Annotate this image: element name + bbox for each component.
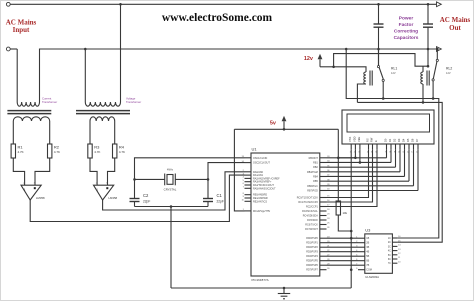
- wire R4 to opamp2 in+: [108, 158, 115, 185]
- svg-text:www.electroSome.com: www.electroSome.com: [162, 12, 273, 24]
- resistor R1 4.7K: [11, 144, 15, 158]
- node crystal gnd tap: [170, 205, 173, 208]
- wire R3 to opamp2 in-: [90, 158, 97, 185]
- node RL2 pivot tap: [436, 48, 439, 51]
- svg-text:LM358: LM358: [36, 196, 45, 200]
- resistor R2 4.7K: [48, 144, 52, 158]
- svg-text:U3: U3: [365, 227, 371, 232]
- node cap C4 bottom / RL1 pivot: [377, 48, 380, 51]
- svg-text:VEE: VEE: [357, 137, 361, 142]
- wire R2 to opamp1 in+: [35, 158, 50, 185]
- wire TR2 sec right lead: [114, 121, 116, 144]
- svg-text:RD7/PSP7: RD7/PSP7: [306, 269, 318, 272]
- LCD1 body: [342, 110, 434, 144]
- resistor R4 4.7K: [113, 144, 117, 158]
- node cap C5 to coil rail: [427, 65, 430, 68]
- svg-text:RD6/PSP6: RD6/PSP6: [306, 264, 318, 267]
- wire VEE jog: [359, 150, 361, 163]
- resistor R3 4.7K: [88, 144, 92, 158]
- node 12v corner: [332, 66, 335, 69]
- svg-text:4MHz: 4MHz: [167, 169, 174, 172]
- svg-text:ULN2003A: ULN2003A: [365, 275, 379, 279]
- svg-text:RC7/RX/DT: RC7/RX/DT: [305, 228, 318, 231]
- svg-text:RC0/T1OSO/T1CKI: RC0/T1OSO/T1CKI: [297, 197, 318, 200]
- wire TR1 sec left lead: [12, 121, 14, 144]
- svg-text:Transformer: Transformer: [126, 100, 141, 104]
- node VDD: [354, 157, 357, 160]
- wire 5v drop to RB0/10k: [337, 129, 339, 201]
- wire crystal left lead: [135, 178, 165, 180]
- node RL2 coil drive: [422, 101, 425, 104]
- svg-text:4B: 4B: [366, 251, 369, 254]
- svg-text:1C: 1C: [388, 237, 391, 240]
- svg-text:RD2/PSP2: RD2/PSP2: [306, 246, 318, 249]
- svg-text:RD4/PSP4: RD4/PSP4: [306, 255, 318, 258]
- wire E to RC2: [327, 150, 378, 207]
- svg-text:Factor: Factor: [399, 22, 414, 28]
- op-amp U2 LM358 (1): [21, 185, 41, 200]
- svg-text:Transformer: Transformer: [42, 100, 57, 104]
- svg-text:OSC2/CLKOUT: OSC2/CLKOUT: [253, 162, 270, 165]
- svg-text:R2: R2: [54, 144, 60, 149]
- svg-text:3B: 3B: [366, 246, 369, 249]
- svg-text:RL1: RL1: [391, 67, 397, 71]
- svg-text:C1: C1: [217, 193, 223, 198]
- relay RL2 switch: [436, 49, 438, 59]
- svg-text:12V: 12V: [391, 71, 396, 75]
- transformer TR1 core: [7, 110, 51, 112]
- node ground junction: [283, 287, 286, 290]
- svg-text:COM: COM: [366, 269, 372, 272]
- svg-text:RD5/PSP5: RD5/PSP5: [306, 260, 318, 263]
- svg-text:Correcting: Correcting: [394, 29, 418, 35]
- wire VDD jog: [338, 157, 355, 159]
- svg-text:R4: R4: [119, 144, 125, 149]
- relay RL1 switch: [378, 49, 380, 65]
- wire TR2 sec left lead: [89, 121, 91, 144]
- transformer TR2 secondary: [90, 117, 115, 121]
- svg-text:VDD: VDD: [352, 136, 356, 142]
- U3 body: [365, 234, 393, 273]
- capacitor C1 22pF: [203, 198, 213, 200]
- wire RL2 coil to driver: [422, 84, 424, 102]
- svg-text:D1: D1: [388, 138, 392, 142]
- svg-text:C2: C2: [143, 193, 149, 198]
- svg-text:MCLR/Vpp/THV: MCLR/Vpp/THV: [253, 210, 271, 213]
- svg-text:RC2/CCP1: RC2/CCP1: [306, 206, 318, 209]
- svg-text:U1: U1: [252, 147, 258, 152]
- svg-text:2C: 2C: [388, 241, 391, 244]
- svg-text:D2: D2: [393, 138, 397, 142]
- svg-text:E: E: [374, 140, 378, 142]
- svg-text:RB3/PGM: RB3/PGM: [307, 171, 318, 174]
- svg-text:OSC1/CLKIN: OSC1/CLKIN: [253, 157, 267, 160]
- svg-text:5v: 5v: [270, 121, 277, 127]
- wire 5v to MCLR: [234, 129, 244, 211]
- svg-text:2B: 2B: [366, 242, 369, 245]
- capacitor C4 (power factor): [378, 4, 380, 24]
- transformer TR1 primary: [17, 102, 39, 106]
- svg-text:D6: D6: [411, 138, 415, 142]
- node VSS-gnd crossing: [350, 230, 353, 233]
- svg-text:Power: Power: [399, 16, 414, 22]
- node switch-line tap: [345, 48, 348, 51]
- svg-text:5C: 5C: [388, 254, 391, 257]
- wire switch line: [346, 49, 439, 238]
- svg-text:RC5/SDO: RC5/SDO: [307, 219, 318, 222]
- node T2 primary left: [84, 48, 87, 51]
- node RL2 contact: [432, 97, 435, 100]
- wire RL1 coil to driver: [357, 84, 366, 102]
- svg-text:RD0/PSP0: RD0/PSP0: [306, 237, 318, 240]
- svg-text:RA5/AN4/SS/C2OUT: RA5/AN4/SS/C2OUT: [253, 187, 276, 190]
- node crystal left: [133, 178, 136, 181]
- svg-text:RS: RS: [366, 138, 370, 142]
- svg-text:RB1: RB1: [313, 161, 318, 164]
- svg-text:22pF: 22pF: [217, 200, 224, 204]
- op-amp U4 LM358 (2): [94, 185, 114, 200]
- svg-text:RE2/AN7/CS: RE2/AN7/CS: [253, 200, 267, 203]
- svg-text:Input: Input: [13, 26, 30, 34]
- crystal X1: [164, 174, 166, 186]
- U3 left pins: [358, 237, 365, 239]
- node cap C5 lower: [427, 48, 430, 51]
- svg-text:4.7K: 4.7K: [54, 150, 60, 154]
- terminal AC out L: [437, 2, 442, 7]
- svg-text:D3: D3: [397, 138, 401, 142]
- node 5v rail: [283, 128, 286, 131]
- capacitor C2 22pF: [130, 198, 140, 200]
- node T2 primary right on line1: [119, 3, 122, 6]
- svg-text:RW: RW: [370, 137, 374, 142]
- svg-text:D7: D7: [415, 138, 419, 142]
- svg-text:Capacitors: Capacitors: [394, 35, 419, 41]
- svg-text:4.7K: 4.7K: [119, 150, 125, 154]
- svg-text:RD3/PSP3: RD3/PSP3: [306, 251, 318, 254]
- node COM junction: [350, 268, 353, 271]
- terminal AC out N: [437, 47, 442, 52]
- wire OSC2 net: [208, 163, 245, 199]
- transformer TR2 core: [76, 110, 130, 112]
- wire opamp1 output: [30, 175, 244, 221]
- wire crystal right lead: [175, 178, 208, 180]
- relay RL1 coil: [364, 72, 366, 84]
- node crystal right: [207, 178, 210, 181]
- svg-text:RC3/SCK/SCL: RC3/SCK/SCL: [302, 210, 318, 213]
- svg-text:RD1/PSP1: RD1/PSP1: [306, 242, 318, 245]
- svg-text:3C: 3C: [388, 245, 391, 248]
- svg-text:R1: R1: [18, 144, 24, 149]
- svg-text:Out: Out: [449, 24, 461, 32]
- svg-text:RB4: RB4: [313, 175, 318, 178]
- wire ground drop: [170, 207, 172, 289]
- svg-text:D4: D4: [402, 138, 406, 142]
- transformer TR2 primary: [85, 102, 120, 106]
- U1 left pins: [245, 157, 252, 159]
- wire OSC1 net: [135, 158, 245, 199]
- svg-text:R3: R3: [94, 144, 100, 149]
- U1 body: [251, 153, 320, 276]
- LCD1 pins: [350, 144, 352, 150]
- svg-text:7B: 7B: [366, 264, 369, 267]
- svg-text:RB0/INT: RB0/INT: [309, 157, 319, 160]
- svg-text:RL2: RL2: [446, 67, 452, 71]
- wire AC line 2: [40, 49, 437, 102]
- wire 12v rail: [320, 66, 334, 68]
- wire RL2 coil top: [422, 66, 424, 72]
- svg-text:VSS: VSS: [348, 137, 352, 142]
- svg-text:AC Mains: AC Mains: [440, 16, 471, 24]
- wire crystal ground: [135, 206, 209, 208]
- wire RW to RC1: [327, 150, 373, 202]
- U3 right pins: [392, 237, 397, 239]
- svg-text:RB6/PGC: RB6/PGC: [307, 185, 318, 188]
- transformer TR1 secondary: [13, 117, 49, 121]
- svg-text:RC4/SDI/SDA: RC4/SDI/SDA: [303, 215, 318, 218]
- svg-text:D5: D5: [406, 138, 410, 142]
- svg-text:D0: D0: [384, 138, 388, 142]
- wire RD0-RD6 to U3 inputs: [327, 237, 359, 239]
- svg-text:RB5: RB5: [313, 180, 318, 183]
- svg-text:4.7K: 4.7K: [94, 150, 100, 154]
- svg-text:RB7/PGD: RB7/PGD: [307, 189, 318, 192]
- svg-text:10k: 10k: [343, 211, 348, 215]
- node cap C5 top: [427, 3, 430, 6]
- svg-text:4.7K: 4.7K: [18, 150, 24, 154]
- node gnd col at RD0: [350, 237, 353, 240]
- terminal AC input N: [6, 47, 10, 51]
- svg-text:22pF: 22pF: [143, 200, 150, 204]
- wire 12v to RL1 coil: [334, 67, 366, 72]
- wire T1 primary left lead: [16, 49, 18, 102]
- wire R5 bottom: [338, 215, 351, 231]
- svg-text:RB2: RB2: [313, 166, 318, 169]
- svg-text:LM358: LM358: [109, 196, 118, 200]
- wire 12v to relays: [334, 54, 428, 67]
- wire VSS ground column: [350, 150, 352, 288]
- wire coil drive line: [357, 102, 442, 242]
- svg-text:1B: 1B: [366, 237, 369, 240]
- wire AC line 1 (top): [13, 3, 437, 5]
- svg-text:6B: 6B: [366, 260, 369, 263]
- wire RS to RC0: [327, 150, 369, 198]
- node RL1 contact: [382, 97, 385, 100]
- node cap C4 top: [377, 3, 380, 6]
- relay RL2 coil: [421, 72, 423, 84]
- U1 right pins: [320, 157, 327, 159]
- wire TR2 primary right lead: [120, 4, 122, 102]
- svg-text:12V: 12V: [446, 71, 451, 75]
- wire TR1 sec right lead: [49, 121, 51, 144]
- ground: [283, 288, 285, 294]
- svg-text:5B: 5B: [366, 255, 369, 258]
- wire opamp2 output: [103, 172, 245, 210]
- wire LCD data bus D0-D7: [327, 157, 387, 159]
- svg-text:6C: 6C: [388, 258, 391, 261]
- capacitor C5 (power factor): [427, 4, 429, 24]
- svg-text:12v: 12v: [304, 56, 314, 62]
- resistor R5 10k: [336, 201, 340, 215]
- wire 5v rail: [234, 128, 338, 130]
- terminal AC input L: [6, 2, 10, 6]
- svg-text:4C: 4C: [388, 250, 391, 253]
- wire bottom ground bus: [171, 287, 351, 289]
- wire TR2 primary left lead: [84, 49, 86, 102]
- node 5v at RB0: [337, 157, 340, 160]
- wire R1 to opamp1 in-: [13, 158, 24, 185]
- svg-text:CRYSTAL: CRYSTAL: [164, 188, 177, 192]
- svg-text:RC6/TX/CK: RC6/TX/CK: [305, 224, 318, 227]
- svg-text:RC1/T1OSI/CCP2: RC1/T1OSI/CCP2: [298, 201, 318, 204]
- svg-text:7C: 7C: [388, 262, 391, 265]
- svg-text:PIC16F877A: PIC16F877A: [252, 278, 269, 282]
